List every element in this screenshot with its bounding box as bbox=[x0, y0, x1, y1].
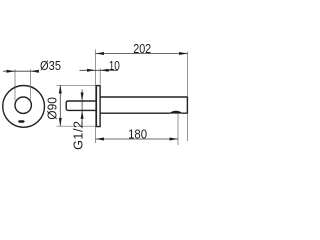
dim 180 line and arrows bbox=[96, 138, 179, 140]
dim 10 extension line bbox=[99, 68, 101, 84]
dim 202 right extension bbox=[187, 52, 189, 142]
svg-text:202: 202 bbox=[133, 42, 151, 56]
wall line bbox=[95, 50, 97, 144]
aerator slot bbox=[18, 120, 24, 123]
svg-text:G1/2: G1/2 bbox=[71, 121, 85, 150]
dim 180 extension line bbox=[177, 114, 179, 146]
dim 202 line and arrows bbox=[96, 53, 188, 55]
svg-text:10: 10 bbox=[109, 59, 120, 73]
svg-text:Ø90: Ø90 bbox=[46, 97, 60, 120]
dim G1/2 arrows bbox=[81, 90, 83, 129]
spout tube side view bbox=[100, 97, 187, 113]
escutcheon outer circle front view bbox=[3, 86, 45, 128]
dim Ø90 extension lines bbox=[57, 85, 96, 126]
spout tube front circle bbox=[15, 97, 31, 113]
svg-text:180: 180 bbox=[128, 127, 147, 141]
dim Ø35 line and arrows bbox=[3, 70, 38, 72]
dim Ø35 extension lines bbox=[15, 69, 30, 100]
svg-text:Ø35: Ø35 bbox=[40, 59, 61, 73]
outlet bump bbox=[170, 111, 183, 113]
G1/2 inlet nipple bbox=[66, 101, 96, 110]
dim 10 line and arrows bbox=[80, 69, 119, 71]
flange side view bbox=[96, 86, 100, 127]
dim Ø90 line and arrows bbox=[59, 85, 61, 126]
